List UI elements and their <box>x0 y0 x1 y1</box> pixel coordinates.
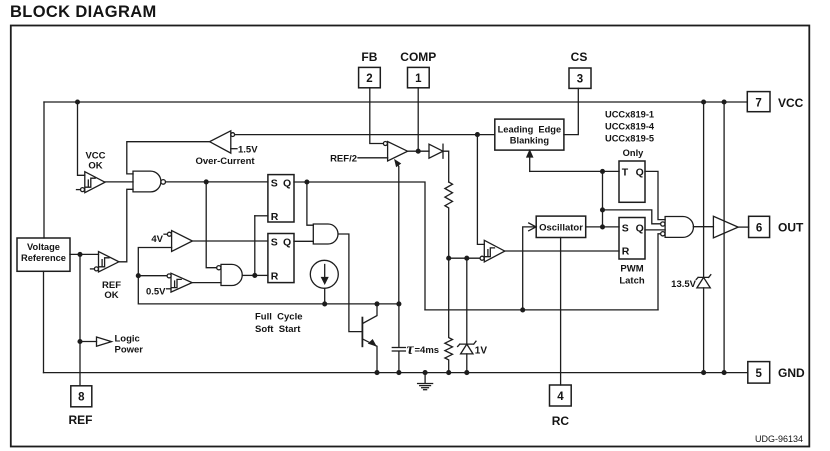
svg-text:Oscillator: Oscillator <box>539 222 583 233</box>
wire oscillator output to PWM latch S <box>586 226 619 228</box>
wire FB pin to error amp <box>370 88 384 144</box>
svg-text:OK: OK <box>88 161 102 172</box>
pin 6 OUT <box>749 216 804 237</box>
svg-text:3: 3 <box>577 74 583 86</box>
wire soft-start node to 0.5V bubble <box>138 275 167 277</box>
wire clock to output AND bubble <box>603 210 661 224</box>
svg-text:τ: τ <box>407 341 415 358</box>
svg-text:7: 7 <box>755 97 761 109</box>
svg-text:S: S <box>622 222 629 234</box>
wire latch2 Q to soft-start AND <box>294 240 313 242</box>
junction cap and emitter on GND rail <box>375 371 401 375</box>
comparator Over-Current 1.5V <box>195 131 258 167</box>
wire blank line to output AND bubble <box>658 234 661 310</box>
resistor divider upper <box>445 182 453 258</box>
svg-text:REF/2: REF/2 <box>330 153 357 164</box>
wire CS pin to LEB <box>564 88 578 134</box>
svg-text:13.5V: 13.5V <box>671 279 696 290</box>
wire VCC to GND right branch <box>722 100 726 374</box>
Voltage Reference block <box>17 238 70 271</box>
svg-text:COMP: COMP <box>400 50 436 64</box>
svg-text:4V: 4V <box>151 234 163 245</box>
svg-text:PWM: PWM <box>620 264 643 275</box>
wire driver to pin 6 <box>738 226 748 228</box>
capacitor soft start 4ms <box>392 304 439 373</box>
wire clock line to T flip-flop <box>530 170 619 174</box>
wire NAND output to latch1 S <box>166 180 268 184</box>
svg-text:5: 5 <box>755 368 762 380</box>
wire current sense line over-current to LEB <box>235 133 495 137</box>
svg-text:Over-Current: Over-Current <box>195 156 255 167</box>
wire Q1 branch down to soft-start AND <box>307 182 313 225</box>
svg-text:Q: Q <box>636 222 644 234</box>
wire restart-blank line <box>425 308 658 312</box>
pin 3 CS <box>569 50 591 88</box>
svg-text:Latch: Latch <box>619 276 645 287</box>
svg-text:6: 6 <box>756 223 762 235</box>
svg-text:Q: Q <box>636 167 644 179</box>
wire divider tap to PWM comparator <box>447 256 480 260</box>
driver buffer <box>713 216 738 238</box>
svg-text:R: R <box>271 271 279 283</box>
svg-text:UDG-96134: UDG-96134 <box>755 434 803 444</box>
diode amp to divider <box>429 144 449 182</box>
logic power buffer <box>97 334 144 356</box>
wire fault NAND output to latch R bus <box>242 274 256 278</box>
soft-start clamp arrow to amp <box>395 160 400 304</box>
svg-text:4: 4 <box>557 391 564 403</box>
comparator REF OK <box>91 252 122 302</box>
svg-text:FB: FB <box>361 50 377 64</box>
svg-text:2: 2 <box>366 73 372 85</box>
wire sense line to PWM comparator plus input <box>477 135 484 245</box>
svg-text:REF: REF <box>69 413 93 427</box>
svg-text:RC: RC <box>552 414 570 428</box>
wire RC pin to oscillator <box>560 238 562 386</box>
svg-text:S: S <box>271 177 278 189</box>
wire latch R bus vertical <box>254 216 256 276</box>
svg-text:UCCx819-4: UCCx819-4 <box>605 122 655 132</box>
wire VREF output to REF OK <box>70 253 99 257</box>
svg-text:1: 1 <box>415 73 422 85</box>
flip-flop T Q <box>619 161 645 202</box>
comparator 4V <box>151 231 192 252</box>
gate AND output <box>661 217 694 238</box>
svg-text:1.5V: 1.5V <box>238 144 258 155</box>
wire to Logic Power buffer <box>80 341 97 343</box>
resistor divider lower <box>445 258 453 374</box>
pin 4 RC <box>550 385 572 428</box>
svg-text:R: R <box>271 211 279 223</box>
svg-text:=4ms: =4ms <box>415 345 440 356</box>
gate NAND soft-start fault <box>217 264 243 285</box>
svg-text:Logic: Logic <box>115 334 140 345</box>
wire VCC OK output to NAND <box>105 181 133 183</box>
zener 1V clamp <box>458 258 488 374</box>
svg-text:8: 8 <box>78 392 85 404</box>
zener 13.5V <box>671 275 711 375</box>
wire 0.5V output to soft start NAND <box>192 282 221 284</box>
wire COMP pin to amp output <box>417 88 419 151</box>
pin 8 REF <box>69 386 93 427</box>
svg-text:GND: GND <box>778 366 805 380</box>
comparator 0.5V <box>146 273 192 297</box>
svg-text:Blanking: Blanking <box>510 135 550 145</box>
wire PWM comparator output to PWM latch R <box>505 250 619 252</box>
wire 4V output to latch2 S <box>192 240 268 242</box>
wire Over-Current output to NAND top input <box>127 142 210 174</box>
svg-text:S: S <box>271 236 278 248</box>
wire VCC rail to Voltage Reference top <box>43 102 45 238</box>
Leading Edge Blanking block <box>495 119 564 150</box>
svg-text:Only: Only <box>623 148 644 158</box>
wire Voltage Reference bottom to GND rail <box>43 271 45 372</box>
pin 2 FB <box>359 50 381 88</box>
wire LEB trigger arrow <box>527 151 533 172</box>
wire REF node to pin 8 <box>78 254 82 385</box>
comparator PWM <box>480 240 505 262</box>
pin 1 COMP <box>400 50 436 88</box>
gate NAND U-lockout <box>133 171 166 192</box>
current source soft start <box>310 260 338 288</box>
wire VCC to 13.5V zener <box>702 100 706 277</box>
wire VCC rail to VCC OK comparator <box>76 100 85 175</box>
svg-text:Q: Q <box>283 177 291 189</box>
wire amp output to diode <box>408 149 429 153</box>
wire clock bus vertical <box>601 171 605 228</box>
svg-text:OK: OK <box>104 290 118 301</box>
latch 1 (S Q / R) <box>268 175 294 223</box>
svg-text:Reference: Reference <box>21 253 66 263</box>
error amp E/A <box>330 142 408 165</box>
svg-text:Voltage: Voltage <box>27 242 60 252</box>
Oscillator block <box>536 216 586 237</box>
svg-text:R: R <box>622 246 630 258</box>
wire oscillator input arrow <box>523 223 537 310</box>
wire AND output to driver <box>693 226 713 228</box>
title BLOCK DIAGRAM <box>10 3 157 21</box>
svg-text:OUT: OUT <box>778 221 804 235</box>
svg-text:Leading Edge: Leading Edge <box>498 124 562 134</box>
wire latch1 R input <box>255 215 268 217</box>
svg-text:Full Cycle: Full Cycle <box>255 312 303 323</box>
svg-text:VCC: VCC <box>778 96 804 110</box>
wire VCC rail <box>44 101 747 103</box>
svg-text:0.5V: 0.5V <box>146 287 166 298</box>
svg-text:UCCx819-1: UCCx819-1 <box>605 110 654 120</box>
svg-text:1V: 1V <box>475 346 488 357</box>
svg-text:Power: Power <box>115 345 144 356</box>
wire soft-start AND output to transistor base <box>339 234 363 332</box>
svg-text:Q: Q <box>283 236 291 248</box>
svg-text:UCCx819-5: UCCx819-5 <box>605 134 654 144</box>
wire PWM latch Q to output AND <box>645 229 665 231</box>
svg-text:Soft Start: Soft Start <box>255 324 301 335</box>
wire T flip-flop Q to output AND <box>645 171 665 219</box>
latch 2 (S Q / R) <box>268 234 294 283</box>
gate AND soft start <box>313 224 338 244</box>
transistor soft-start discharge <box>362 304 377 373</box>
wire soft-start node to 4V input <box>136 248 400 306</box>
wire REF OK output to NAND bottom input <box>119 189 133 261</box>
wire current source to soft-start node <box>324 288 326 304</box>
wire latch1 Q to soft-start restart line <box>294 180 425 310</box>
pin 7 VCC <box>747 92 803 112</box>
svg-text:BLOCK DIAGRAM: BLOCK DIAGRAM <box>10 3 157 21</box>
wire GND rail <box>44 372 748 374</box>
wire latch2 R input <box>255 274 268 276</box>
ground <box>418 371 433 390</box>
wire NAND output branch to soft start NAND bubble <box>206 182 216 268</box>
pin 5 GND <box>748 362 805 384</box>
svg-text:T: T <box>622 167 629 179</box>
comparator VCC OK <box>77 151 106 193</box>
latch PWM (S Q / R) <box>619 218 645 287</box>
svg-text:CS: CS <box>571 50 588 64</box>
